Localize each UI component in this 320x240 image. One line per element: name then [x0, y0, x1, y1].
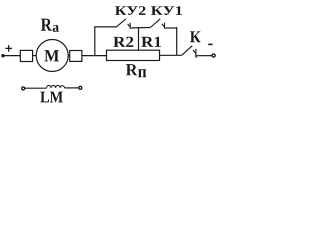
minus sign [208, 43, 212, 45]
wire + terminal to left brush box [3, 55, 20, 57]
label R1 [141, 37, 161, 47]
LM coil arcs [47, 85, 65, 88]
contact КУ2 hook [128, 23, 132, 29]
label KY2 [115, 6, 146, 15]
contact КУ1 hook [162, 23, 166, 29]
tap riser between R2 and R1 [138, 27, 140, 50]
terminal - circle [212, 54, 215, 57]
resistor Rп box [107, 50, 160, 60]
top branch wire right segment [166, 27, 177, 29]
wire contact К to - terminal [197, 55, 213, 57]
contact К blade [182, 46, 193, 56]
contact К hook [193, 49, 197, 57]
plus sign [5, 45, 12, 52]
label M [44, 50, 59, 61]
label Ra_R [41, 19, 52, 31]
terminal + dot [1, 54, 4, 57]
label KY1 [151, 6, 182, 15]
contact КУ1 blade [150, 19, 160, 28]
right riser wire [176, 27, 178, 55]
brush box right of motor [70, 51, 82, 62]
label K [190, 31, 200, 42]
motor M armature circle [36, 40, 68, 72]
label R2 [113, 37, 133, 47]
wire Rп to contact К [160, 54, 182, 56]
top branch wire middle segment [131, 27, 150, 29]
label Rp_R [126, 64, 138, 75]
label LM [40, 92, 62, 103]
label Rp_p [138, 69, 146, 77]
brush box left of motor [20, 50, 32, 61]
top branch wire left segment [94, 26, 116, 28]
LM right terminal circle [79, 86, 82, 89]
wire right brush box to resistor Rп [82, 55, 107, 57]
LM wire right [65, 87, 79, 89]
wire motor to right brush box [68, 55, 70, 57]
label Ra_a [53, 25, 59, 32]
left riser wire [94, 27, 96, 56]
LM left terminal circle [22, 87, 25, 90]
contact КУ2 blade [116, 19, 126, 27]
wire brush box to motor [33, 55, 37, 57]
LM wire left [25, 87, 47, 89]
